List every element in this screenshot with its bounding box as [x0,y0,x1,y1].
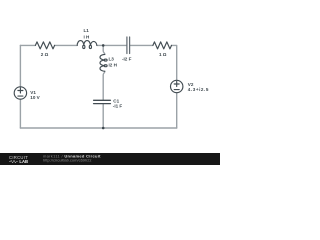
svg-text:4.3+i2.5: 4.3+i2.5 [188,87,209,92]
svg-text:1 Ω: 1 Ω [159,52,167,57]
svg-text:i H: i H [84,34,91,39]
svg-text:10 V: 10 V [30,95,40,100]
svg-text:http://circuitlab.com/c69h2z: http://circuitlab.com/c69h2z [43,158,91,163]
svg-text:-i1 F: -i1 F [113,104,123,109]
svg-text:-i2 F: -i2 F [122,56,132,61]
svg-text:L3: L3 [109,57,115,62]
svg-text:C1: C1 [113,98,119,103]
svg-text:V1: V1 [30,90,36,95]
svg-text:LAB: LAB [19,159,28,164]
svg-text:V2: V2 [188,82,194,87]
svg-text:i2 H: i2 H [109,62,118,67]
svg-text:L1: L1 [84,28,90,33]
svg-text:2 Ω: 2 Ω [41,52,49,57]
